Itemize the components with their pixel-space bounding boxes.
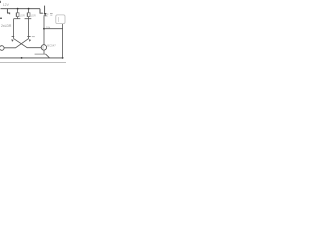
corner text fragment top-left bbox=[0, 1, 1, 3]
wire: cross-over left to right (to Q2 base) bbox=[14, 39, 42, 48]
diode D1 bbox=[44, 13, 47, 16]
wire: cross-over right to left (to motor) bbox=[4, 39, 29, 48]
wire: collector drop bbox=[43, 16, 45, 45]
wire: rail corner down right bbox=[40, 9, 43, 14]
node E junction dot bbox=[62, 57, 64, 59]
svg-text:2xLDR: 2xLDR bbox=[1, 24, 12, 28]
transistor arrow left bbox=[11, 39, 13, 42]
wire: emitter drop bbox=[43, 50, 45, 54]
relay label fragment bbox=[50, 13, 53, 14]
transistor Q1 bbox=[41, 45, 46, 50]
wire: emitter diagonal to ground rail bbox=[46, 54, 50, 58]
wire: bottom ground rail bbox=[0, 57, 63, 59]
relay K1 box bbox=[56, 15, 65, 24]
svg-text:BC547: BC547 bbox=[47, 44, 56, 48]
wire: top supply rail bbox=[1, 8, 41, 10]
diode label fragment bbox=[46, 14, 48, 15]
wire: lower return rail bbox=[0, 62, 66, 64]
switch lever S1 bbox=[44, 6, 46, 13]
LDR R2 bbox=[25, 9, 32, 19]
transistor arrow right bbox=[29, 39, 31, 41]
svg-text:10k: 10k bbox=[46, 25, 51, 29]
LDR R1 bbox=[14, 9, 21, 19]
svg-text:12V: 12V bbox=[3, 3, 10, 7]
wire: right divider drop bbox=[28, 19, 30, 39]
motor M1 (left circle) bbox=[0, 46, 4, 51]
base tick right bbox=[27, 36, 30, 38]
base tick left bbox=[12, 36, 15, 38]
supply stub terminal bbox=[6, 9, 8, 13]
node B junction dot bbox=[28, 8, 30, 10]
left edge text fragment bbox=[0, 18, 2, 19]
svg-text:LDR: LDR bbox=[31, 14, 36, 17]
node C junction dot bbox=[43, 28, 45, 30]
svg-text:LDR: LDR bbox=[20, 14, 25, 17]
node D junction dot bbox=[21, 57, 23, 59]
wire: collector to relay branch bbox=[44, 28, 63, 30]
label fragment right bbox=[32, 36, 35, 37]
wire: right return riser bbox=[62, 24, 64, 58]
wire: emitter stub left bbox=[35, 53, 46, 55]
node A junction dot bbox=[17, 8, 19, 10]
wire: left divider drop bbox=[13, 19, 15, 39]
relay coil mark bbox=[58, 17, 60, 22]
